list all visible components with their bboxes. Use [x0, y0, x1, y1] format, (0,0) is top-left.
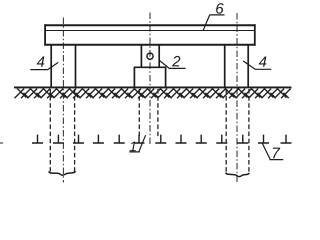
beam 6 left end [44, 24, 46, 45]
ground hatch [15, 88, 291, 98]
label 4 left leader [30, 62, 58, 69]
right pile 1 buried walls (dashed) [226, 89, 249, 173]
bearing 2 walls [141, 46, 159, 68]
beam 6 top edge [44, 24, 255, 26]
label 2 text [172, 56, 180, 66]
beam 6 bottom edge [44, 44, 255, 46]
partial tick mark at left margin [0, 142, 3, 144]
center pile buried walls (dashed) [139, 89, 158, 138]
label 4 right leader [243, 61, 271, 69]
beam 6 inner flange line [45, 30, 256, 32]
label 4 left text [37, 56, 45, 66]
pedestal walls [134, 67, 165, 87]
label 1 leader [129, 135, 145, 152]
pedestal top [134, 66, 167, 68]
right pile break-line bottom [226, 173, 250, 177]
centerline right pier [236, 13, 238, 183]
label 7 leader [262, 143, 283, 160]
centerline center column [149, 13, 151, 145]
label 6 leader [203, 15, 225, 31]
bearing 2 pin circle [147, 53, 153, 59]
label 4 right text [259, 56, 267, 66]
label 2 leader [159, 60, 185, 68]
right pier 4 walls [225, 46, 249, 88]
ground line [14, 86, 292, 88]
pile row tick marks [32, 135, 292, 143]
label 1 text [130, 142, 136, 152]
label 7 text [273, 148, 280, 159]
left pier 4 walls [51, 46, 75, 88]
centerline left pier [62, 18, 64, 183]
left pile 1 buried walls (dashed) [50, 89, 74, 172]
left pile break-line bottom [49, 171, 76, 175]
beam 6 right end [254, 24, 256, 45]
label 6 text [216, 3, 223, 14]
